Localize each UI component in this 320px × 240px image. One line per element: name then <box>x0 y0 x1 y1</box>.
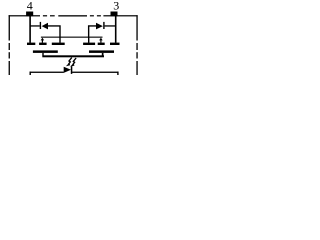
body diode D2 triangle (points right) <box>96 23 103 30</box>
wire: D2 cathode to pin-3 vertical <box>105 25 116 26</box>
MOSFET Q2 body contact bar <box>98 43 105 45</box>
Q2 gate stub down <box>102 53 104 56</box>
body diode D1 cathode bar <box>40 22 41 29</box>
package outline left: dash <box>9 52 10 58</box>
package outline top: middle solid segment <box>58 15 87 16</box>
Q2 body arrow (head, points up) <box>99 38 103 41</box>
wire: bottom bus left segment <box>30 72 64 73</box>
photodiode PD1 cathode bar <box>71 66 73 74</box>
pin 4 pad <box>26 12 33 17</box>
MOSFET Q1 body contact bar <box>39 43 47 45</box>
wire: pin 3 to Q2 drain (vertical) <box>115 16 117 43</box>
package outline top: dash <box>43 15 47 16</box>
Q1 gate line <box>33 50 58 53</box>
package outline left: upper solid <box>9 15 10 40</box>
package outline right: dash <box>136 52 137 58</box>
MOSFET Q1 drain contact bar <box>27 43 35 45</box>
wire: bottom bus drops to pin (right) <box>117 72 118 75</box>
wire: left source vertical (tie to Q1 source bar) <box>59 37 60 43</box>
wire: D1 anode right then down to source node <box>48 26 60 37</box>
gate drive rail (photodiode array bus) <box>42 55 104 57</box>
body diode D2 cathode bar <box>103 22 104 29</box>
Q2 gate line <box>89 50 114 53</box>
MOSFET Q1 source contact bar <box>52 43 65 45</box>
body diode D1 triangle (points left) <box>42 23 48 30</box>
wire: D1 cathode to pin-4 vertical <box>30 25 40 26</box>
package outline right: upper solid <box>136 15 137 40</box>
wire: bottom bus right segment <box>72 72 118 73</box>
package outline top: dash <box>90 15 94 16</box>
Q1 body arrow (shaft) <box>42 40 43 43</box>
pin 3 pad <box>111 12 118 17</box>
svg-text:4: 4 <box>27 0 33 12</box>
package outline right: dash <box>136 43 137 50</box>
wire: D2 anode from source node up and right <box>89 26 97 37</box>
package outline left: lower solid <box>9 61 10 75</box>
package outline top: dash <box>50 15 55 16</box>
MOSFET Q2 source contact bar <box>83 43 95 45</box>
svg-text:3: 3 <box>113 0 119 12</box>
package outline top: right solid segment <box>103 15 137 16</box>
package outline top: left solid segment <box>9 15 40 16</box>
source-body tie line <box>41 37 103 38</box>
photon arrow (bolt) 2 <box>73 58 76 65</box>
package outline top: dash <box>97 15 101 16</box>
package outline right: lower solid <box>136 61 137 75</box>
wire: bottom bus drops to pin (left) <box>30 72 31 75</box>
MOSFET Q2 drain contact bar <box>110 43 120 45</box>
photon arrow (bolt) 1 <box>69 58 72 65</box>
Q1 gate stub down <box>42 53 43 56</box>
photodiode PD1 triangle (points right) <box>64 67 71 73</box>
wire: pin 4 to Q1 drain (vertical) <box>29 16 31 43</box>
wire: right source vertical (tie to Q2 source bar) <box>88 37 89 43</box>
Q2 body arrow (shaft) <box>100 40 101 43</box>
package outline left: dash <box>9 43 10 50</box>
Q1 body arrow (head, points up) <box>41 38 45 41</box>
